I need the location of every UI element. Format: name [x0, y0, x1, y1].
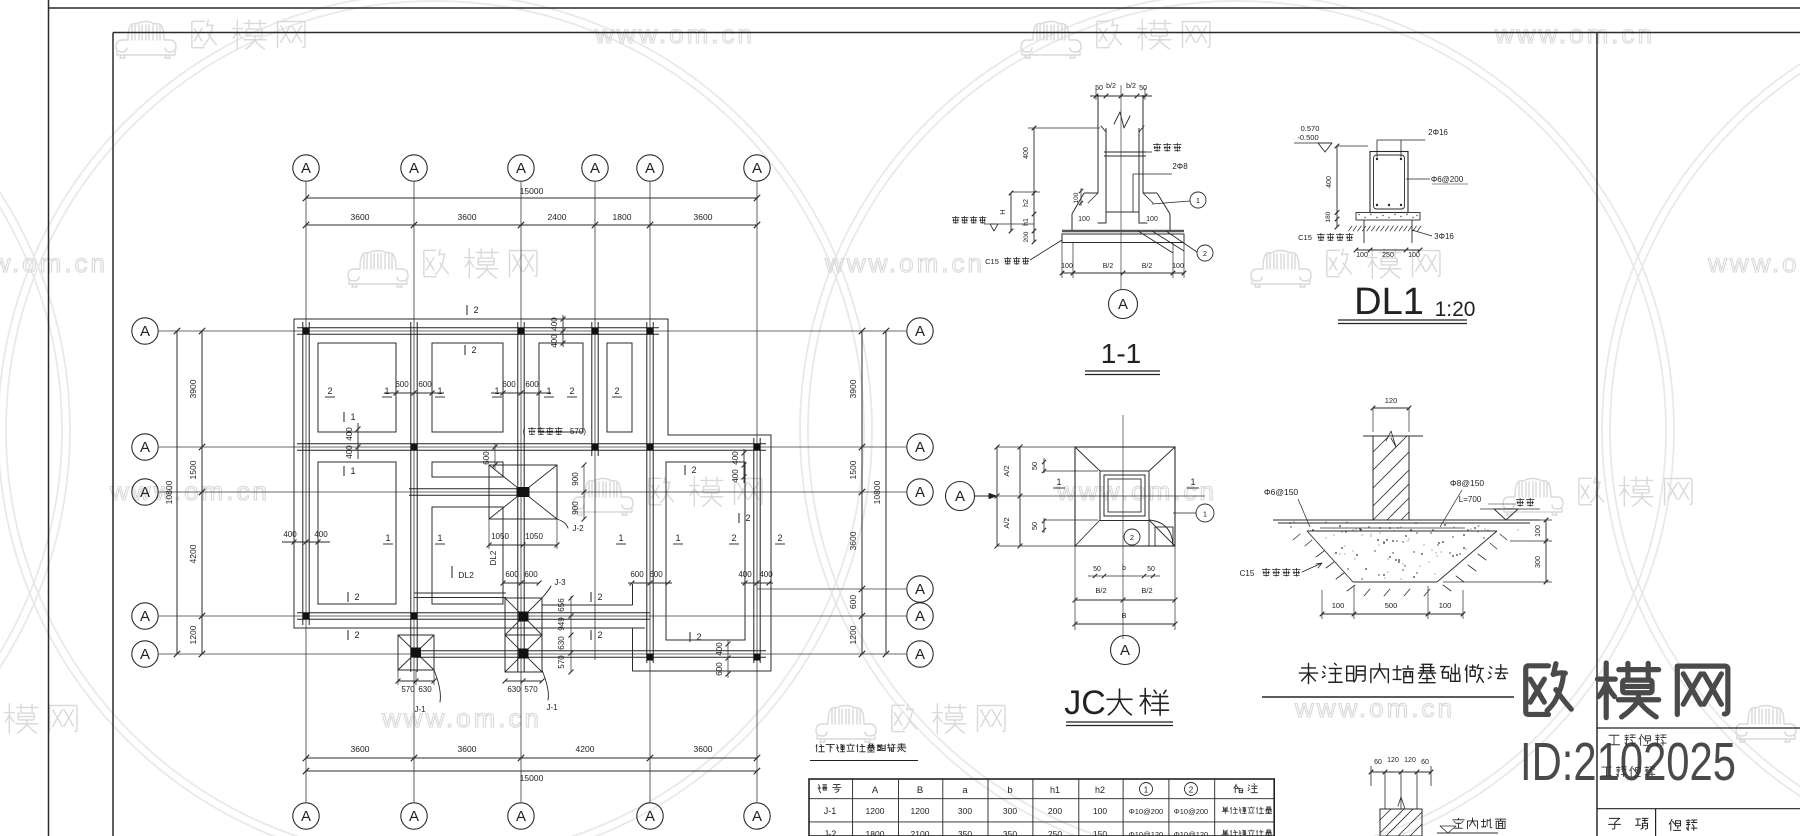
- svg-text:-0.500: -0.500: [1297, 133, 1318, 142]
- column squares on grid: [303, 328, 310, 335]
- svg-text:1800: 1800: [866, 829, 885, 836]
- svg-text:400: 400: [550, 317, 559, 331]
- detail DL1 stirrup: [1374, 155, 1405, 209]
- label DL2 horizontal with mark: [451, 566, 453, 578]
- svg-text:(: (: [523, 427, 526, 436]
- svg-text:150: 150: [1093, 829, 1107, 836]
- svg-text:400: 400: [345, 427, 354, 441]
- detail wall-fdn footing body: [1278, 522, 1530, 524]
- svg-text:600: 600: [395, 380, 409, 389]
- svg-text:100: 100: [1061, 263, 1073, 270]
- svg-text:10800: 10800: [164, 480, 174, 504]
- svg-text:570: 570: [557, 655, 566, 669]
- svg-text:1: 1: [1144, 786, 1149, 795]
- svg-text:b/2: b/2: [1126, 83, 1136, 90]
- svg-text:L=700: L=700: [1459, 495, 1482, 504]
- detail 1-1 break symbol: [1114, 112, 1130, 128]
- svg-text:200: 200: [1048, 806, 1062, 816]
- svg-text:www.om.cn: www.om.cn: [381, 703, 542, 733]
- svg-text:1200: 1200: [866, 806, 885, 816]
- detail JC inner squares: [1100, 471, 1149, 521]
- svg-text:3600: 3600: [458, 744, 477, 754]
- svg-text:4200: 4200: [188, 544, 198, 563]
- detail 1-1 leader circle 2: [1197, 245, 1213, 261]
- svg-text:2: 2: [1203, 249, 1207, 258]
- detail 1-1 H dim line: [1010, 193, 1012, 231]
- svg-text:200: 200: [1023, 231, 1030, 242]
- svg-text:1: 1: [350, 412, 355, 422]
- title block divider vertical: [1596, 33, 1598, 836]
- svg-text:15000: 15000: [520, 186, 544, 196]
- svg-text:600: 600: [505, 570, 519, 579]
- footing edges of wall E lower part: [632, 584, 634, 605]
- svg-text:120: 120: [1385, 396, 1398, 405]
- svg-text:DL2: DL2: [458, 570, 474, 580]
- svg-text:www.om.cn: www.om.cn: [1707, 248, 1800, 278]
- site logo text: [1526, 664, 1572, 715]
- svg-text:630: 630: [557, 636, 566, 650]
- svg-text:J-2: J-2: [824, 829, 837, 836]
- label J-2 with leader: [557, 519, 568, 528]
- detail JC left dim chain: [996, 447, 998, 546]
- detail DL1 beam outline: [1370, 152, 1408, 213]
- detail 1-1 bottom dim chain: [1062, 272, 1184, 274]
- svg-text:100: 100: [1535, 525, 1542, 537]
- detail 1-1 top dimension: [1090, 95, 1152, 97]
- svg-text:2: 2: [745, 513, 750, 523]
- detail 1-1 leader circle 1: [1190, 192, 1206, 208]
- table grid: [809, 779, 1274, 836]
- svg-text:1: 1: [1203, 510, 1207, 519]
- detail JC bottom axis circle A: [1111, 636, 1140, 665]
- svg-text:A: A: [645, 160, 655, 177]
- mini detail indoor ground label: [1453, 818, 1464, 828]
- svg-text:600: 600: [848, 595, 858, 609]
- beam outline joining J-3 cluster to right wing: [542, 604, 633, 606]
- detail DL1 rebar dots: [1376, 158, 1378, 160]
- svg-text:50: 50: [1147, 566, 1155, 573]
- svg-text:2: 2: [473, 305, 478, 315]
- detail 1-1 axis circle A: [1109, 290, 1138, 319]
- wall along axis 2 horizontal: [297, 443, 766, 445]
- top dimension chain segments: [306, 224, 757, 226]
- svg-text:600: 600: [630, 570, 644, 579]
- svg-text:1: 1: [437, 533, 442, 543]
- svg-text:100: 100: [1093, 806, 1107, 816]
- detail 1-1 footing steps: [1084, 192, 1098, 194]
- svg-text:100: 100: [1439, 601, 1452, 610]
- sheet outer border left line: [48, 0, 50, 836]
- axis circles left column: [132, 318, 158, 344]
- svg-text:0.570: 0.570: [1301, 124, 1320, 133]
- svg-text:2: 2: [614, 386, 619, 396]
- detail wall-fdn bottom dim: [1322, 613, 1463, 615]
- sheet outer border top line: [49, 7, 1800, 9]
- svg-text:A: A: [140, 646, 150, 663]
- svg-text:50: 50: [1093, 566, 1101, 573]
- svg-text:400: 400: [1023, 147, 1030, 159]
- watermark row 1: [116, 22, 176, 59]
- svg-text:120: 120: [1387, 757, 1399, 764]
- svg-text:A: A: [1118, 296, 1128, 313]
- sheet inner frame top line: [113, 32, 1800, 34]
- axis circles top row: [293, 155, 319, 181]
- svg-text:4200: 4200: [576, 744, 595, 754]
- detail DL1 trench lines: [1363, 220, 1365, 243]
- svg-text:2: 2: [569, 386, 574, 396]
- svg-text:10800: 10800: [872, 480, 882, 504]
- plan axis vertical grid lines: [305, 182, 307, 802]
- detail JC outer footing square: [1075, 447, 1175, 546]
- svg-text:A: A: [301, 808, 311, 825]
- detail DL1 left dim: [1336, 146, 1338, 227]
- svg-text:1200: 1200: [188, 625, 198, 644]
- svg-text:400: 400: [1326, 176, 1333, 188]
- svg-text:A: A: [752, 160, 762, 177]
- svg-text:1: 1: [1196, 196, 1200, 205]
- left dimension chain total 10800: [176, 331, 178, 654]
- svg-text:A: A: [1120, 642, 1130, 659]
- wall vertical axis B: [410, 322, 412, 672]
- svg-text:400: 400: [759, 570, 773, 579]
- svg-text:600: 600: [715, 662, 724, 676]
- footing inner edge room A-B top: [432, 343, 503, 432]
- footing inner edge room middle lower: [432, 507, 503, 604]
- svg-text:1500: 1500: [188, 460, 198, 479]
- svg-text:Φ6@150: Φ6@150: [1264, 487, 1299, 497]
- detail DL1 bottom dim: [1356, 249, 1420, 251]
- left dimension chain segments: [201, 331, 203, 654]
- svg-text:350: 350: [958, 829, 972, 836]
- sheet inner frame left line: [112, 33, 114, 836]
- svg-text:A: A: [915, 484, 925, 501]
- svg-text:A: A: [140, 439, 150, 456]
- svg-text:1: 1: [618, 533, 623, 543]
- detail 1-1 column outline: [1097, 95, 1099, 193]
- svg-text:A: A: [645, 808, 655, 825]
- wall vertical axis E: [646, 322, 648, 663]
- label J-3 with leader: [542, 586, 551, 598]
- svg-text:1: 1: [494, 386, 499, 396]
- svg-text:A: A: [409, 160, 419, 177]
- svg-text:b/2: b/2: [1106, 83, 1116, 90]
- svg-text:1200: 1200: [848, 625, 858, 644]
- svg-text:1: 1: [1190, 477, 1195, 487]
- section marks type 2 upper: [466, 305, 468, 315]
- svg-text:50: 50: [1030, 462, 1039, 470]
- svg-text:1:20: 1:20: [1435, 298, 1476, 321]
- detail 1-1 bearing stratum label and symbol: [952, 216, 959, 224]
- axis circles bottom row: [293, 803, 319, 829]
- svg-text:J-2: J-2: [572, 524, 584, 533]
- svg-text:630: 630: [507, 685, 521, 694]
- svg-text:A/2: A/2: [1002, 517, 1011, 528]
- svg-text:A: A: [516, 160, 526, 177]
- svg-text:A: A: [915, 608, 925, 625]
- svg-text:A: A: [301, 160, 311, 177]
- svg-text:A: A: [752, 808, 762, 825]
- svg-text:www.om.cn: www.om.cn: [0, 248, 108, 278]
- wall along axis 6 horizontal bottom: [414, 650, 766, 652]
- footing inner edge room C top: [539, 343, 583, 432]
- footing inner edge room left lower: [318, 462, 396, 604]
- watermark background circles: [0, 0, 70, 836]
- svg-text:B/2: B/2: [1141, 586, 1152, 595]
- section marks type 1 left: [343, 412, 345, 422]
- svg-text:1-1: 1-1: [1101, 338, 1141, 369]
- svg-text:A: A: [915, 323, 925, 340]
- svg-text:570: 570: [401, 685, 415, 694]
- svg-text:h2: h2: [1095, 785, 1105, 795]
- detail wall-fdn wall cap lines: [1363, 435, 1423, 437]
- svg-text:3Φ16: 3Φ16: [1434, 232, 1454, 241]
- svg-text:400: 400: [283, 530, 297, 539]
- svg-text:B/2: B/2: [1095, 586, 1106, 595]
- svg-text:400: 400: [550, 334, 559, 348]
- svg-text:180: 180: [1325, 211, 1332, 222]
- svg-text:www.om.cn: www.om.cn: [1494, 19, 1655, 49]
- svg-text:C15: C15: [1298, 233, 1312, 242]
- svg-text:1200: 1200: [911, 806, 930, 816]
- svg-text:656: 656: [557, 598, 566, 612]
- svg-text:100: 100: [1146, 216, 1158, 223]
- svg-text:2: 2: [696, 632, 701, 642]
- svg-text:2: 2: [597, 592, 602, 602]
- wall vertical axis C: [517, 322, 519, 672]
- footing inner edge room D top narrow: [607, 343, 632, 432]
- svg-text:J-1: J-1: [824, 806, 837, 816]
- wall vertical axis D short: [591, 322, 593, 456]
- outer strip footing outline of building: [294, 319, 771, 671]
- wall along axis 5 horizontal bottom of main block: [297, 612, 650, 614]
- wall left exterior vertical: [302, 322, 304, 625]
- svg-text:400: 400: [345, 445, 354, 459]
- svg-text:600: 600: [418, 380, 432, 389]
- detail 1-1 mesh label leader: [1106, 151, 1152, 153]
- detail 1-1 column rebar lines: [1105, 128, 1107, 223]
- footing inner edge rectangles room top-left: [318, 343, 396, 432]
- right dimension chain total 10800: [885, 331, 887, 654]
- svg-text:600: 600: [524, 570, 538, 579]
- svg-text:1: 1: [385, 533, 390, 543]
- title block sub item label: [1609, 818, 1621, 829]
- title block name label: [1669, 819, 1680, 830]
- svg-text:60: 60: [1421, 759, 1429, 766]
- svg-text:400: 400: [731, 451, 740, 465]
- svg-text:www.om.cn: www.om.cn: [109, 476, 270, 506]
- svg-text:Φ10@200: Φ10@200: [1129, 807, 1163, 816]
- svg-text:1: 1: [384, 386, 389, 396]
- svg-text:3600: 3600: [351, 744, 370, 754]
- svg-text:3600: 3600: [694, 212, 713, 222]
- svg-text:600: 600: [525, 380, 539, 389]
- ground beam DL2 between axis B and footing J-3: [414, 592, 506, 594]
- title block project name label: [1608, 735, 1619, 745]
- svg-text:DL2: DL2: [489, 550, 498, 565]
- svg-text:400: 400: [731, 469, 740, 483]
- right dimension chain segments: [861, 331, 863, 654]
- svg-text:100: 100: [1332, 601, 1345, 610]
- svg-text:100: 100: [1172, 263, 1184, 270]
- detail JC left axis circle with arrow: [946, 482, 975, 511]
- bottom dimension chain total 15000: [306, 770, 757, 772]
- svg-text:J-3: J-3: [554, 578, 566, 587]
- detail JC door arc symbol: [1149, 520, 1173, 546]
- svg-text:400: 400: [715, 642, 724, 656]
- svg-text:900: 900: [571, 501, 580, 515]
- svg-text:1: 1: [675, 533, 680, 543]
- wall segment axis 3 horizontal: [409, 488, 521, 490]
- svg-text:3600: 3600: [458, 212, 477, 222]
- detail JC pyramid diagonals: [1075, 447, 1100, 471]
- svg-text:B: B: [1121, 611, 1126, 620]
- section marks lower area: [347, 592, 349, 602]
- svg-text:1: 1: [1056, 477, 1061, 487]
- detail wall-fdn stipple dots: [1360, 529, 1362, 531]
- svg-text:120: 120: [1404, 757, 1416, 764]
- svg-text:JC: JC: [1064, 684, 1106, 722]
- svg-text:2: 2: [354, 592, 359, 602]
- detail 1-1 mesh lines in column: [1104, 151, 1146, 153]
- svg-text:50: 50: [1030, 522, 1039, 530]
- svg-text:60: 60: [1374, 759, 1382, 766]
- svg-text:J-1: J-1: [414, 705, 426, 714]
- svg-text:3900: 3900: [848, 379, 858, 398]
- label J-1 left with leader: [434, 670, 440, 702]
- isolated footing J-1 left: [398, 635, 434, 670]
- svg-text:100: 100: [1408, 252, 1420, 259]
- svg-text:2100: 2100: [911, 829, 930, 836]
- svg-text:b: b: [1007, 785, 1012, 796]
- svg-text:300: 300: [958, 806, 972, 816]
- svg-text:500: 500: [1385, 601, 1398, 610]
- svg-text:2: 2: [327, 386, 332, 396]
- svg-text:A: A: [409, 808, 419, 825]
- svg-text:ID:2102025: ID:2102025: [1520, 732, 1736, 792]
- detail 1-1 2-phi-8 label: [1133, 173, 1172, 175]
- svg-text:3600: 3600: [848, 531, 858, 550]
- footing inner edge right wing room: [666, 462, 745, 640]
- title block horizontal divider lower: [1597, 808, 1800, 810]
- svg-text:15000: 15000: [520, 773, 544, 783]
- table title: [816, 744, 824, 752]
- svg-text:50: 50: [1139, 85, 1147, 92]
- svg-text:Φ10@120: Φ10@120: [1129, 830, 1163, 836]
- svg-text:A: A: [140, 608, 150, 625]
- detail wall-fdn rebar line with dots: [1320, 527, 1465, 529]
- svg-text:A: A: [872, 785, 879, 796]
- isolated footing J-2 with diagonals and column: [489, 465, 557, 519]
- svg-text:2: 2: [731, 533, 736, 543]
- svg-text:2: 2: [597, 630, 602, 640]
- svg-text:A: A: [140, 323, 150, 340]
- footing inner edge room middle upper small: [432, 462, 503, 477]
- svg-text:Φ10@200: Φ10@200: [1174, 807, 1208, 816]
- svg-text:400: 400: [738, 570, 752, 579]
- svg-text:3900: 3900: [188, 379, 198, 398]
- svg-text:A: A: [140, 484, 150, 501]
- svg-text:Φ10@120: Φ10@120: [1174, 830, 1208, 836]
- detail wall-fdn break mark top: [1386, 431, 1396, 447]
- detail wall-fdn ground line: [1273, 519, 1540, 521]
- svg-text:A: A: [915, 439, 925, 456]
- svg-text:2Φ8: 2Φ8: [1172, 162, 1188, 171]
- svg-text:100: 100: [1356, 252, 1368, 259]
- svg-text:A/2: A/2: [1002, 465, 1011, 476]
- detail wall-fdn hatched wall: [1373, 436, 1409, 520]
- svg-text:A: A: [915, 646, 925, 663]
- isolated footing J-1 below J-3: [505, 635, 542, 672]
- svg-text:250: 250: [1048, 829, 1062, 836]
- axis circles right column: [907, 318, 933, 344]
- svg-text:350: 350: [1003, 829, 1017, 836]
- svg-text:2: 2: [1189, 786, 1194, 795]
- svg-text:www.om.cn: www.om.cn: [594, 19, 755, 49]
- svg-text:900: 900: [571, 472, 580, 486]
- label J-1 middle with leader: [542, 670, 548, 700]
- detail JC axis lines: [1122, 415, 1124, 639]
- table header row: [818, 785, 827, 793]
- svg-text:3600: 3600: [694, 744, 713, 754]
- wall right exterior vertical: [753, 438, 755, 663]
- svg-text:B/2: B/2: [1142, 263, 1153, 270]
- mini detail wall lines: [1384, 772, 1386, 809]
- svg-text:570: 570: [524, 685, 538, 694]
- svg-text:1500: 1500: [848, 460, 858, 479]
- svg-text:A: A: [955, 488, 965, 505]
- wall along axis A top exterior: [297, 327, 659, 329]
- svg-text:J-1: J-1: [546, 703, 558, 712]
- svg-text:1050: 1050: [491, 532, 509, 541]
- svg-text:B/2: B/2: [1103, 263, 1114, 270]
- title block horizontal divider upper: [1597, 727, 1800, 729]
- svg-text:2400: 2400: [548, 212, 567, 222]
- bottom dimension chain segments: [306, 757, 757, 759]
- svg-text:H: H: [998, 209, 1007, 214]
- detail 1-1 footing slab: [1062, 234, 1184, 243]
- svg-text:b: b: [1122, 565, 1126, 572]
- svg-text:www.om.cn: www.om.cn: [824, 248, 985, 278]
- svg-text:2: 2: [1130, 533, 1134, 542]
- title block second label: [1601, 767, 1611, 776]
- detail DL1 stirrup label leader: [1406, 178, 1430, 180]
- detail 1-1 slope hatch marks: [1088, 193, 1153, 203]
- svg-text:h1: h1: [1023, 218, 1030, 226]
- svg-text:B: B: [917, 785, 923, 796]
- detail wall-fdn right dim: [1545, 520, 1547, 582]
- svg-text:2Φ16: 2Φ16: [1428, 128, 1448, 137]
- detail wall-fdn soil hatch marks: [1293, 534, 1507, 596]
- detail JC leader circle 1: [1196, 504, 1214, 522]
- svg-text:1050: 1050: [525, 532, 543, 541]
- detail JC leader circle 2: [1124, 529, 1140, 545]
- svg-text:h1: h1: [1050, 785, 1060, 795]
- isolated footing J-3 with diagonals and column: [505, 598, 542, 635]
- svg-text:Φ6@200: Φ6@200: [1431, 175, 1464, 184]
- svg-text:2: 2: [471, 345, 476, 355]
- detail 1-1 left dim chain: [1033, 128, 1035, 242]
- svg-text:A: A: [516, 808, 526, 825]
- title block cell divider vertical: [1655, 809, 1657, 836]
- svg-text:600: 600: [502, 380, 516, 389]
- detail wall-fdn ground elevation symbol: [1494, 509, 1518, 520]
- svg-text:1: 1: [437, 386, 442, 396]
- svg-text:570): 570): [570, 427, 586, 436]
- detail DL1 ground hatch: [1349, 226, 1422, 231]
- svg-text:1: 1: [546, 386, 551, 396]
- svg-text:2: 2: [354, 630, 359, 640]
- svg-text:300: 300: [1535, 556, 1542, 568]
